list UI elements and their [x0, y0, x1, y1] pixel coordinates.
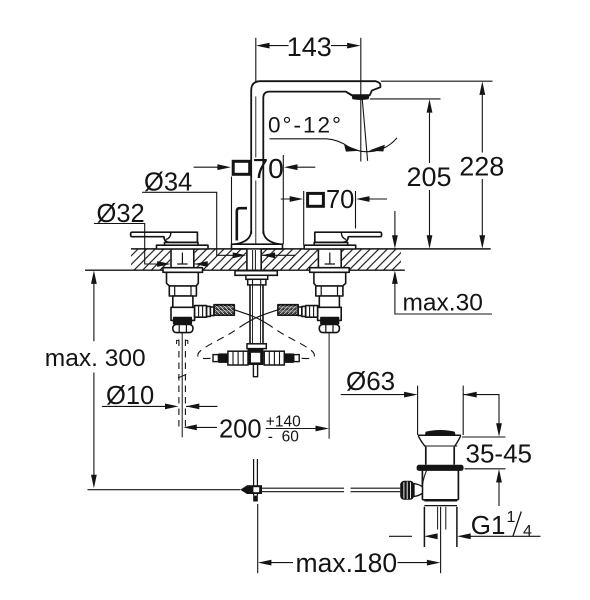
left valve outlet rings — [207, 306, 211, 316]
tee left arm hex — [228, 351, 248, 365]
dia10 right arrow — [186, 404, 200, 410]
left valve body — [167, 272, 199, 286]
drain funnel joint line — [424, 445, 457, 447]
143 left arrow — [256, 43, 270, 49]
dim 205 line — [429, 111, 431, 237]
drain body cone line — [423, 471, 427, 484]
rod coupling wedge — [240, 485, 247, 494]
dia32 right arrow — [194, 261, 208, 267]
spout nose underside — [346, 92, 352, 96]
left valve shank inner tick — [177, 253, 187, 265]
dia63 extensions — [418, 386, 464, 435]
tee right arm hex — [264, 351, 284, 365]
dim 70 right: extensions — [304, 191, 356, 245]
left valve elbow — [171, 307, 195, 320]
200 left arrow — [183, 425, 197, 431]
drain tail pipe walls — [424, 507, 457, 547]
dim 143 line — [269, 45, 347, 47]
right valve extension line (200 dim) — [328, 333, 330, 439]
dia10 left arrow — [165, 404, 179, 410]
dia34 left arrow — [233, 252, 247, 258]
right valve assembly (mirror) — [278, 232, 382, 332]
fraction bar — [266, 428, 310, 430]
dim 228 line — [481, 94, 483, 238]
svg-text:max.180: max.180 — [296, 548, 398, 578]
svg-text:70: 70 — [326, 186, 354, 214]
spout base plate — [232, 244, 283, 249]
dia63 left arrow — [404, 392, 418, 398]
svg-text:200: 200 — [219, 416, 262, 444]
left valve assembly — [131, 232, 235, 332]
knob connector — [414, 484, 422, 497]
water stream line 12deg — [362, 100, 367, 161]
max.30 bottom stem + underline — [395, 282, 492, 314]
max.300 dim line — [93, 283, 95, 476]
143 right arrow — [347, 43, 361, 49]
left valve cylinder — [173, 296, 193, 307]
tee bottom stem — [253, 365, 257, 377]
drain thread band — [424, 501, 457, 506]
center stepped nut — [246, 275, 268, 279]
left valve outlet nut — [195, 306, 207, 318]
left valve deck shank walls — [170, 249, 172, 268]
228 top arrow — [479, 81, 485, 95]
drain upper body — [426, 447, 454, 465]
left handle neck fillet — [166, 232, 171, 239]
deck bottom line + max.300 reference — [85, 269, 405, 271]
left hose braided section — [214, 305, 234, 316]
label square 70 left: symbol — [233, 161, 250, 174]
svg-text:0°-12°: 0°-12° — [268, 113, 343, 138]
tee right end — [294, 355, 299, 362]
35-45 bottom arrow — [496, 469, 502, 483]
max.300 bottom arrow — [91, 475, 97, 489]
pull rod diagonal tick — [178, 374, 186, 378]
G1 1/4 leader — [389, 535, 541, 537]
tee left cap (dark) — [218, 353, 228, 363]
left valve hex nut — [169, 286, 196, 296]
arrowheads — [91, 43, 502, 566]
70R left arrow — [290, 196, 304, 202]
deck hole left (white) — [170, 248, 194, 271]
angle leader underline merging into arc — [270, 138, 398, 152]
G1 left arrow — [424, 533, 438, 539]
ref line aerator (205) — [370, 98, 441, 100]
svg-text:Ø10: Ø10 — [106, 382, 154, 410]
deck hole right (white) — [318, 248, 342, 271]
pull-rod knob behind spout — [237, 208, 247, 240]
angle arc right arrowhead — [369, 145, 385, 152]
hose curve: right braid to tee left end — [246, 310, 278, 324]
left handle lever — [131, 232, 198, 242]
dim 70 left: extensions — [232, 155, 284, 244]
svg-text:G1: G1 — [471, 510, 506, 540]
drain tail pipe bore — [438, 507, 446, 530]
dim 143 extension right — [360, 38, 362, 95]
70L right arrow — [284, 164, 298, 170]
dim 70 right: tails — [281, 198, 387, 200]
svg-text:70: 70 — [253, 153, 284, 184]
dim 143 extension left — [255, 38, 257, 81]
pull rod inside center shank — [253, 250, 256, 271]
center shank walls through deck — [247, 249, 261, 271]
dia63 right arrow — [463, 392, 477, 398]
center under-deck flange — [235, 271, 277, 276]
spout base flare — [235, 231, 281, 244]
center threaded tube — [250, 285, 263, 344]
drain lower body — [422, 471, 458, 500]
left handle escutcheon — [157, 245, 209, 249]
dia34 leader — [142, 192, 295, 255]
svg-text:35-45: 35-45 — [466, 439, 533, 469]
G1 right arrow — [457, 533, 471, 539]
dim 200 line — [196, 427, 316, 428]
svg-text:4: 4 — [523, 523, 532, 540]
dia32 left arrow — [157, 261, 171, 267]
max.30 top arrow — [392, 235, 398, 249]
drain funnel taper — [418, 436, 460, 447]
200 right arrow — [316, 426, 330, 432]
left valve lower joint (dark) — [174, 318, 192, 324]
tee body (dark with white core) — [248, 349, 264, 365]
svg-text:Ø34: Ø34 — [144, 168, 192, 196]
left valve neck — [176, 323, 190, 325]
228 bottom arrow — [479, 235, 485, 249]
max.300 top arrow — [91, 270, 97, 284]
max.180 line — [271, 562, 428, 564]
dia63 leader — [341, 395, 499, 425]
svg-text:1: 1 — [507, 509, 516, 526]
ref line spout top (228) — [381, 80, 493, 82]
rod knob (knurled) — [400, 481, 414, 500]
dim 70 left: tails — [194, 166, 316, 168]
205 bottom arrow — [427, 235, 433, 249]
drain funnel rim — [418, 434, 461, 436]
svg-text:228: 228 — [459, 152, 504, 182]
spout center line in column — [255, 97, 257, 245]
svg-text:Ø63: Ø63 — [346, 366, 395, 396]
spout outline (side view of faucet) — [232, 81, 381, 249]
vertical pop-up rod — [254, 459, 258, 496]
dia32 leader — [94, 224, 210, 265]
tee collar — [247, 344, 266, 349]
rod coupling block — [247, 485, 262, 494]
water stream line 0deg (also 143 extension below aerator) — [360, 100, 362, 162]
35-45 ref lines — [462, 437, 506, 469]
deck hole center (white) — [246, 248, 262, 271]
rod end cap — [253, 496, 258, 502]
svg-text:143: 143 — [287, 32, 332, 62]
svg-text:max.30: max.30 — [403, 290, 483, 317]
svg-text:- 60: - 60 — [268, 429, 299, 446]
drain plug cap (black top) — [425, 430, 455, 435]
label square 70 right: symbol — [308, 193, 324, 206]
drain center line — [440, 507, 442, 573]
max.180 right arrow — [427, 560, 441, 566]
svg-text:Ø32: Ø32 — [97, 200, 145, 228]
70R right arrow — [356, 196, 370, 202]
drain gasket (black) — [417, 465, 464, 471]
pull rod fork marks — [177, 340, 188, 344]
70L left arrow — [217, 164, 231, 170]
left valve bottom nut — [173, 324, 193, 332]
horizontal rod right part (double line) — [262, 488, 400, 492]
max.180 extensions — [257, 504, 259, 573]
35-45 bottom stem — [498, 481, 500, 506]
pull rod dashed pair (diameter 10) — [179, 340, 186, 431]
205 top arrow — [427, 99, 433, 113]
mounting deck (hatched cross-section) — [131, 249, 401, 270]
angle arc left arrowhead — [344, 145, 360, 152]
label 1/4 slash — [513, 512, 521, 537]
left handle step plate — [165, 242, 199, 245]
35-45 top arrow — [496, 423, 502, 437]
svg-text:205: 205 — [406, 162, 451, 192]
horizontal pop-up rod left part — [88, 489, 241, 491]
tee left end — [213, 355, 218, 362]
drain pop-up waste assembly — [400, 430, 463, 573]
deck top line — [131, 248, 491, 250]
max.30 bottom arrow — [392, 270, 398, 284]
tee right cap (dark) — [284, 353, 294, 363]
aerator (black) — [352, 95, 370, 100]
left valve under-deck flange — [163, 268, 203, 273]
hose curve: left braid to tee right end — [234, 310, 266, 324]
svg-text:max. 300: max. 300 — [45, 345, 146, 372]
max.180 left arrow — [258, 560, 272, 566]
pull rod center line under left valve — [181, 333, 183, 438]
dia34 right arrow — [262, 252, 276, 258]
dia10 leader — [102, 405, 218, 407]
max.30 top arrow stem — [394, 211, 396, 237]
